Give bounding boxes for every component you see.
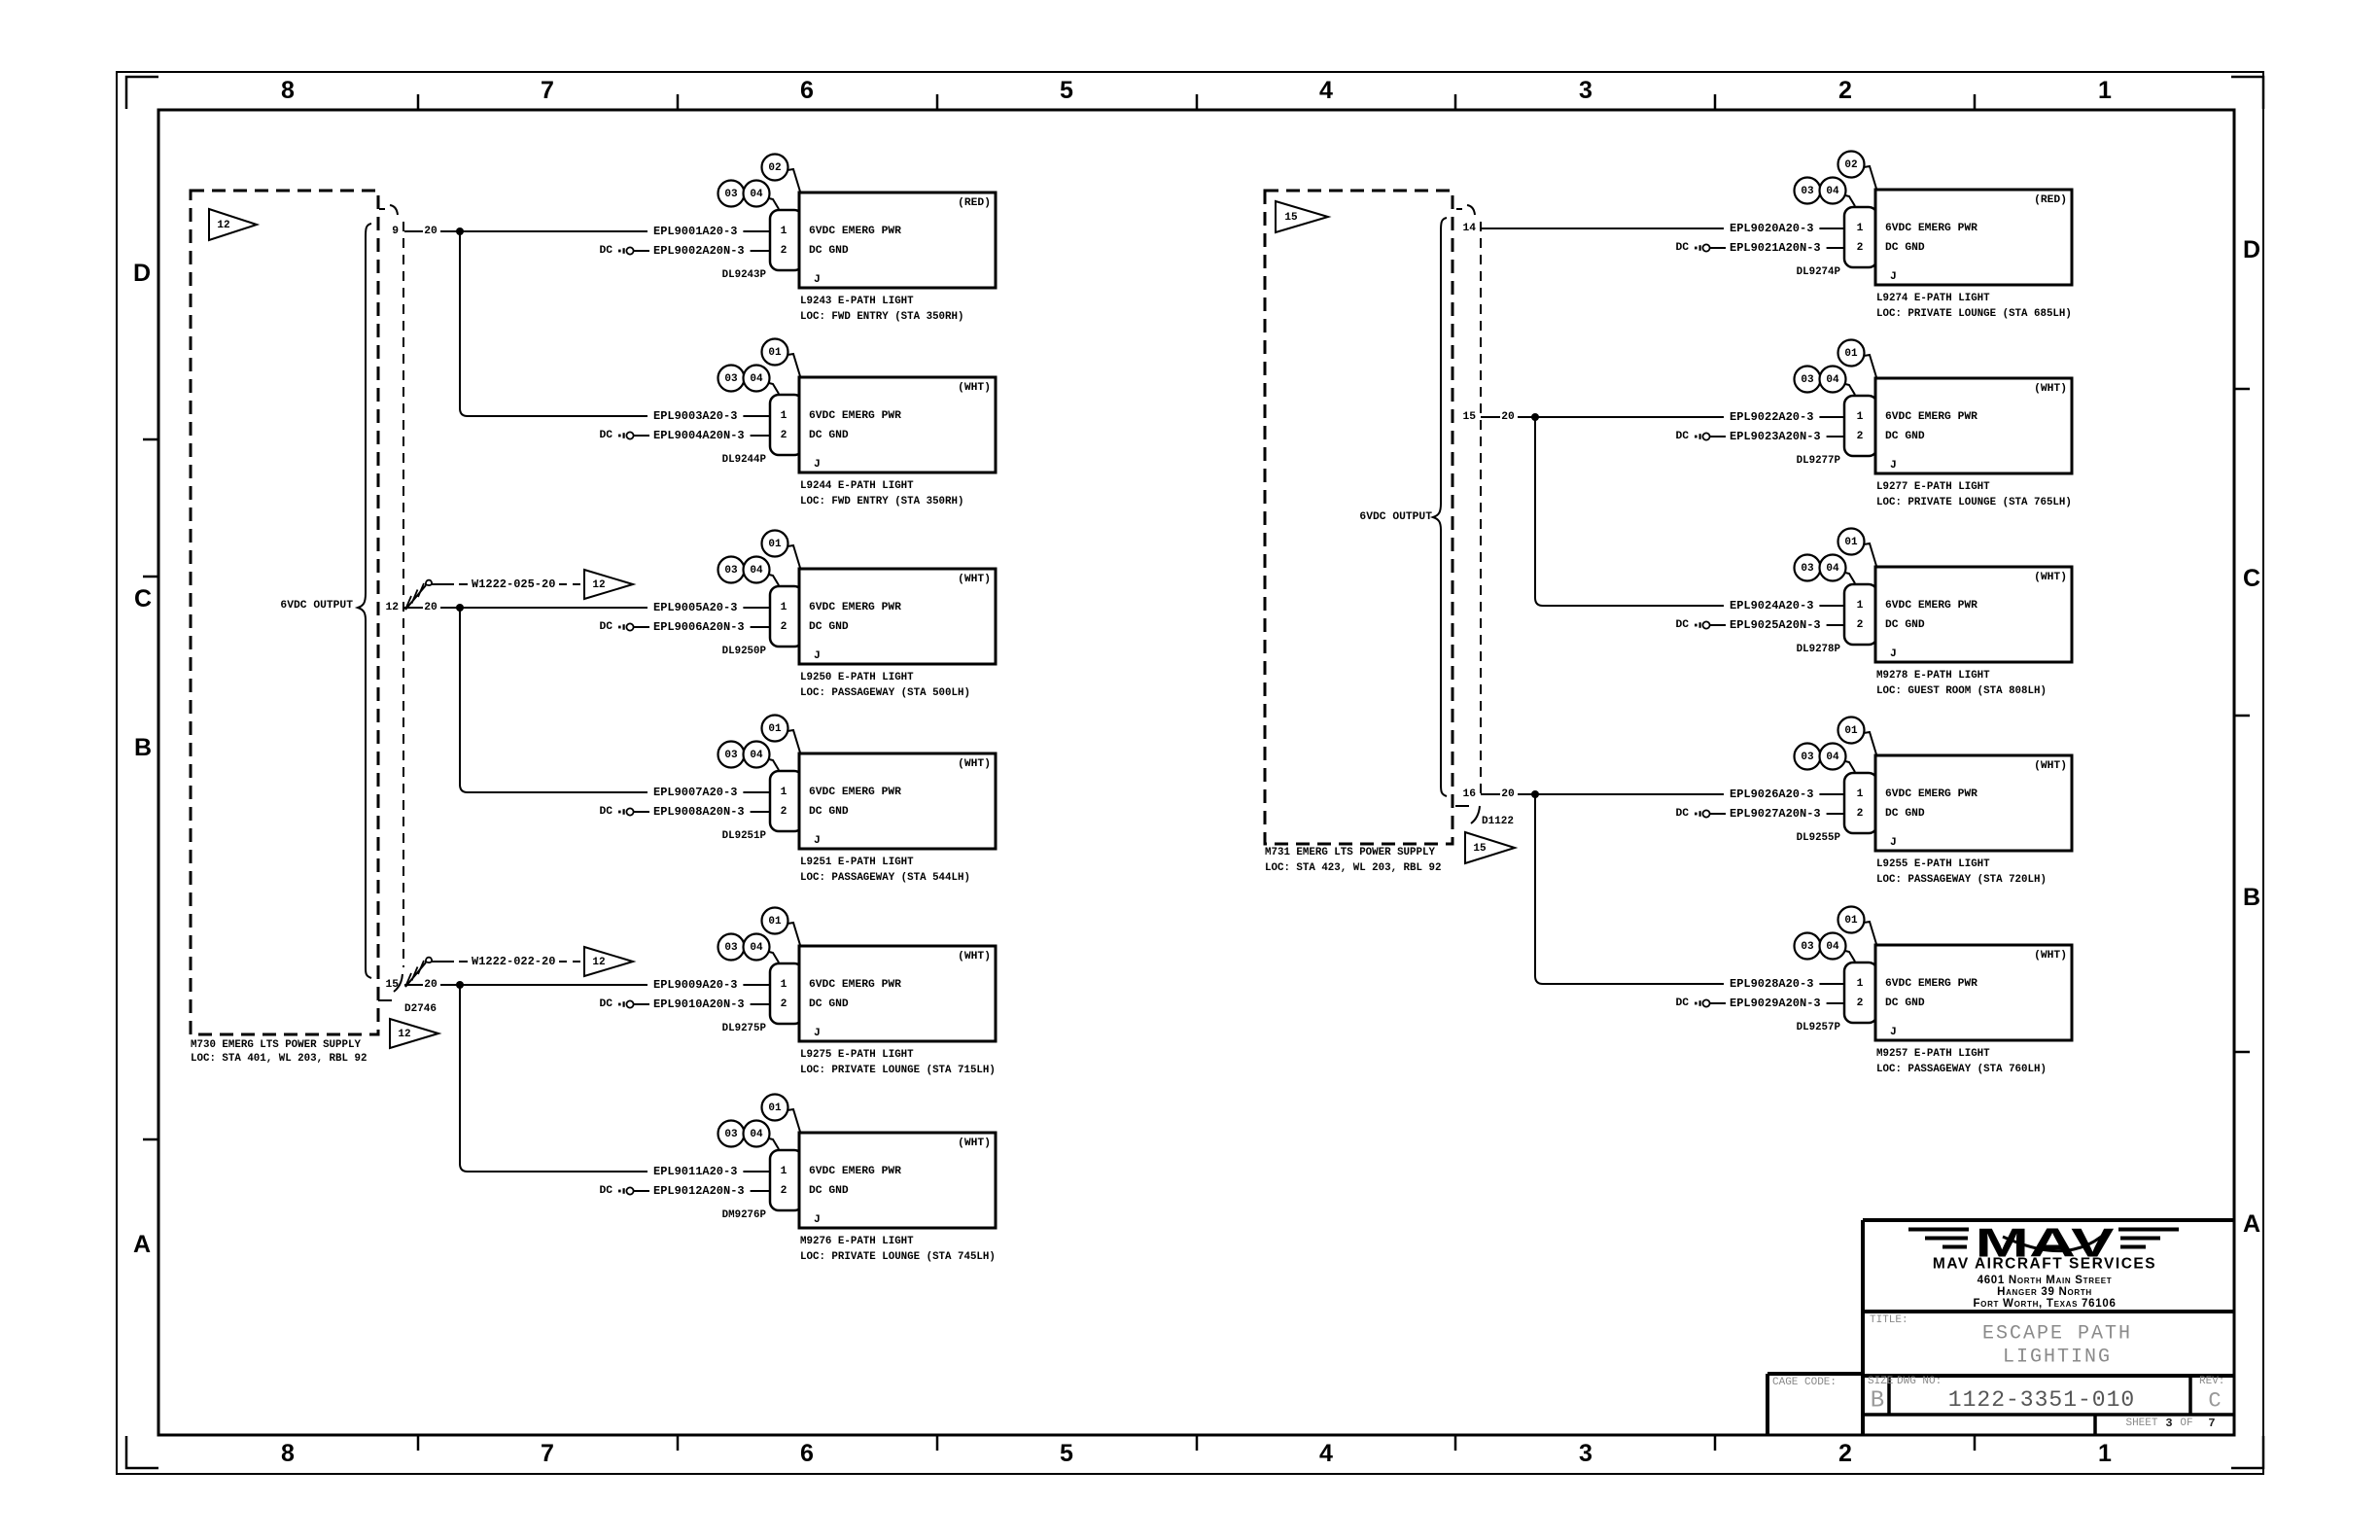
svg-text:15: 15 [1462, 411, 1476, 423]
wire pin 9 to EPL9001 [404, 226, 647, 237]
svg-text:LOC: PRIVATE LOUNGE (STA 685LH: LOC: PRIVATE LOUNGE (STA 685LH) [1876, 308, 2072, 320]
connector bracket of M731 [1455, 205, 1481, 823]
svg-text:L9243 E-PATH LIGHT: L9243 E-PATH LIGHT [800, 296, 914, 307]
svg-text:03: 03 [1801, 752, 1814, 763]
svg-text:16: 16 [1462, 788, 1476, 800]
svg-text:DC: DC [1675, 997, 1689, 1009]
pin 2 of DL9243P [781, 245, 787, 257]
svg-text:J: J [1890, 1027, 1897, 1038]
svg-text:1: 1 [781, 410, 787, 422]
ground symbol DC for EPL9006A20N-3 [599, 621, 649, 633]
svg-text:W1222-022-20: W1222-022-20 [472, 955, 555, 968]
label D1122 [1482, 816, 1514, 827]
svg-text:EPL9020A20-3: EPL9020A20-3 [1730, 222, 1813, 235]
svg-text:04: 04 [1826, 752, 1839, 763]
svg-text:1: 1 [781, 1166, 787, 1177]
pin 2 of DL9251P [781, 806, 787, 818]
svg-text:2: 2 [1857, 997, 1864, 1009]
pin 2 of DL9278P [1857, 619, 1864, 631]
svg-text:DL9243P: DL9243P [722, 269, 767, 281]
svg-text:LOC: STA 423, WL 203, RBL 92: LOC: STA 423, WL 203, RBL 92 [1265, 862, 1441, 874]
svg-text:EPL9023A20N-3: EPL9023A20N-3 [1730, 430, 1821, 443]
connector label DL9243P [722, 269, 767, 281]
svg-text:EPL9010A20N-3: EPL9010A20N-3 [653, 997, 745, 1011]
svg-text:DC GND: DC GND [1885, 431, 1925, 442]
ground symbol DC for EPL9025A20N-3 [1675, 619, 1726, 631]
svg-text:12: 12 [398, 1029, 410, 1040]
svg-text:8: 8 [281, 77, 295, 104]
connector DL9250P [770, 586, 803, 647]
svg-text:MAV AIRCRAFT SERVICES: MAV AIRCRAFT SERVICES [1933, 1256, 2156, 1273]
svg-text:EPL9026A20-3: EPL9026A20-3 [1730, 787, 1813, 801]
rev cell [2199, 1376, 2224, 1414]
svg-text:6: 6 [800, 77, 814, 104]
junction (pin 16, M731) [1531, 790, 1539, 798]
pin 2 of DL9274P [1857, 242, 1864, 254]
svg-text:B: B [1871, 1388, 1884, 1415]
svg-text:EPL9007A20-3: EPL9007A20-3 [653, 786, 737, 799]
svg-text:6VDC OUTPUT: 6VDC OUTPUT [1359, 511, 1432, 523]
svg-text:DL9250P: DL9250P [722, 646, 767, 657]
svg-text:04: 04 [750, 373, 763, 385]
wire pin 15 to EPL9009 [404, 979, 647, 991]
callout circle 04 [744, 742, 780, 771]
svg-text:01: 01 [1844, 915, 1858, 927]
svg-text:2: 2 [1857, 242, 1864, 254]
svg-text:(WHT): (WHT) [958, 382, 991, 394]
svg-text:J: J [1890, 648, 1897, 660]
svg-text:8: 8 [281, 1440, 295, 1467]
wire EPL9002A20N-3 [653, 244, 770, 258]
svg-text:EPL9004A20N-3: EPL9004A20N-3 [653, 429, 745, 442]
svg-text:20: 20 [424, 226, 437, 237]
pin 2 of DL9244P [781, 430, 787, 441]
svg-text:DC GND: DC GND [1885, 619, 1925, 631]
drawing title [1870, 1314, 2132, 1369]
svg-text:D: D [2243, 236, 2260, 263]
callout circle 01 [762, 716, 801, 753]
svg-text:L9275 E-PATH LIGHT: L9275 E-PATH LIGHT [800, 1049, 914, 1061]
wire EPL9026A20-3 [1730, 787, 1844, 801]
svg-text:LOC: PASSAGEWAY (STA 720LH): LOC: PASSAGEWAY (STA 720LH) [1876, 874, 2047, 886]
svg-text:A: A [2243, 1210, 2260, 1238]
callout circle 03 [1795, 744, 1821, 770]
ground symbol DC for EPL9021A20N-3 [1675, 242, 1726, 254]
svg-text:04: 04 [1826, 941, 1839, 953]
svg-text:6VDC EMERG PWR: 6VDC EMERG PWR [1885, 788, 1977, 800]
svg-text:3: 3 [1579, 1440, 1592, 1467]
connector label DM9276P [722, 1209, 767, 1221]
power supply M731 [1265, 191, 1452, 874]
ground symbol DC for EPL9012A20N-3 [599, 1185, 649, 1197]
label L9255 E-PATH LIGHT [1876, 858, 2047, 886]
svg-text:12: 12 [592, 957, 605, 968]
svg-text:D: D [133, 260, 151, 287]
flag 15 (bottom, M731) [1465, 832, 1515, 863]
ground symbol DC for EPL9023A20N-3 [1675, 431, 1726, 442]
svg-text:1: 1 [781, 787, 787, 798]
svg-text:14: 14 [1462, 223, 1476, 234]
svg-text:02: 02 [768, 162, 781, 174]
svg-text:M730 EMERG LTS POWER SUPPLY: M730 EMERG LTS POWER SUPPLY [191, 1039, 361, 1051]
connector label DL9255P [1797, 832, 1841, 844]
svg-text:04: 04 [750, 942, 763, 954]
callout circle 01 [762, 339, 801, 377]
svg-text:6: 6 [800, 1440, 814, 1467]
svg-text:12: 12 [592, 579, 605, 591]
svg-text:04: 04 [750, 565, 763, 577]
svg-text:1: 1 [2098, 1440, 2112, 1467]
svg-text:C: C [2208, 1389, 2221, 1414]
label L9274 E-PATH LIGHT [1876, 293, 2072, 320]
label L9250 E-PATH LIGHT [800, 672, 970, 699]
svg-text:01: 01 [768, 347, 782, 359]
pin 1 of DL9255P [1857, 788, 1864, 800]
wire EPL9003A20-3 [653, 409, 770, 423]
svg-text:6VDC OUTPUT: 6VDC OUTPUT [280, 600, 353, 612]
svg-text:(WHT): (WHT) [2034, 572, 2067, 583]
wire pin 14 to EPL9020 [1481, 227, 1724, 229]
svg-text:DL9251P: DL9251P [722, 830, 767, 842]
svg-text:7: 7 [541, 77, 554, 104]
svg-text:TITLE:: TITLE: [1870, 1314, 1908, 1326]
svg-text:03: 03 [724, 1129, 738, 1140]
svg-text:01: 01 [1844, 537, 1858, 548]
svg-text:C: C [134, 585, 152, 612]
branch wire to L9251 [460, 608, 647, 792]
svg-text:DL9257P: DL9257P [1797, 1022, 1841, 1033]
svg-text:EPL9003A20-3: EPL9003A20-3 [653, 409, 737, 423]
branch wire to M9276 [460, 985, 647, 1172]
svg-text:04: 04 [1826, 374, 1839, 386]
svg-text:LOC: PASSAGEWAY (STA 760LH): LOC: PASSAGEWAY (STA 760LH) [1876, 1064, 2047, 1075]
callout circle 02 [762, 155, 801, 192]
callout circle 04 [744, 557, 780, 586]
wire EPL9006A20N-3 [653, 620, 770, 634]
callout circle 01 [762, 1095, 801, 1133]
cable W1222-022-20 [405, 955, 580, 987]
svg-text:03: 03 [724, 750, 738, 761]
callout circle 03 [1795, 178, 1821, 204]
svg-text:DL9255P: DL9255P [1797, 832, 1841, 844]
callout circle 03 [718, 557, 745, 583]
svg-text:DC: DC [599, 245, 612, 257]
connector label DL9250P [722, 646, 767, 657]
svg-text:LOC: PASSAGEWAY (STA 544LH): LOC: PASSAGEWAY (STA 544LH) [800, 872, 970, 884]
wire EPL9028A20-3 [1730, 977, 1844, 991]
svg-text:L9274 E-PATH LIGHT: L9274 E-PATH LIGHT [1876, 293, 1990, 304]
svg-text:EPL9025A20N-3: EPL9025A20N-3 [1730, 618, 1821, 632]
power supply M730 [191, 191, 378, 1065]
svg-text:L9251 E-PATH LIGHT: L9251 E-PATH LIGHT [800, 857, 914, 868]
dwg no cell [1897, 1376, 2135, 1413]
svg-text:LOC: FWD ENTRY (STA 350RH): LOC: FWD ENTRY (STA 350RH) [800, 311, 963, 323]
wire pin 16 to EPL9026 [1481, 788, 1724, 800]
label M9278 E-PATH LIGHT [1876, 670, 2047, 697]
svg-text:2: 2 [781, 1185, 787, 1197]
label M9257 E-PATH LIGHT [1876, 1048, 2047, 1075]
svg-text:B: B [2243, 884, 2260, 911]
pin 2 of DL9277P [1857, 431, 1864, 442]
svg-text:12: 12 [217, 220, 229, 231]
svg-text:1: 1 [1857, 788, 1864, 800]
connector label DL9251P [722, 830, 767, 842]
wire EPL9022A20-3 [1730, 410, 1844, 424]
callout circle 04 [744, 934, 780, 963]
svg-text:B: B [134, 734, 152, 761]
svg-text:LOC: GUEST ROOM (STA 808LH): LOC: GUEST ROOM (STA 808LH) [1876, 685, 2047, 697]
pin 1 of DM9276P [781, 1166, 787, 1177]
svg-text:J: J [814, 274, 821, 286]
svg-text:2: 2 [1857, 619, 1864, 631]
wire EPL9029A20N-3 [1730, 997, 1844, 1010]
svg-text:(WHT): (WHT) [2034, 760, 2067, 772]
svg-text:EPL9009A20-3: EPL9009A20-3 [653, 978, 737, 992]
wire EPL9009A20-3 [653, 978, 770, 992]
callout circle 01 [1838, 907, 1877, 945]
connector DL9257P [1844, 962, 1877, 1023]
pin 1 of DL9243P [781, 226, 787, 237]
svg-text:M9278 E-PATH LIGHT: M9278 E-PATH LIGHT [1876, 670, 1990, 682]
pin 2 of DL9275P [781, 998, 787, 1010]
svg-text:J: J [814, 1214, 821, 1226]
svg-text:1: 1 [781, 226, 787, 237]
connector DL9278P [1844, 584, 1877, 645]
callout circle 04 [1820, 744, 1856, 773]
wire EPL9024A20-3 [1730, 599, 1844, 612]
light unit L9251 [799, 753, 996, 849]
cage code cell [1772, 1377, 1837, 1388]
flag 12 (bottom, M730) [390, 1019, 438, 1048]
connector DM9276P [770, 1150, 803, 1210]
ground symbol DC for EPL9010A20N-3 [599, 998, 649, 1010]
svg-text:DL9277P: DL9277P [1797, 455, 1841, 467]
svg-text:LOC: PRIVATE LOUNGE (STA 765LH: LOC: PRIVATE LOUNGE (STA 765LH) [1876, 497, 2072, 508]
svg-text:6VDC EMERG PWR: 6VDC EMERG PWR [1885, 223, 1977, 234]
svg-text:EPL9002A20N-3: EPL9002A20N-3 [653, 244, 745, 258]
light unit L9275 [799, 946, 996, 1041]
svg-text:1: 1 [1857, 600, 1864, 612]
svg-text:LOC: PRIVATE LOUNGE (STA 745LH: LOC: PRIVATE LOUNGE (STA 745LH) [800, 1251, 996, 1263]
flag 15 (top, M731) [1276, 201, 1328, 232]
svg-text:J: J [1890, 271, 1897, 283]
pin 1 of DL9250P [781, 602, 787, 613]
svg-text:2: 2 [1838, 77, 1852, 104]
svg-text:EPL9021A20N-3: EPL9021A20N-3 [1730, 241, 1821, 255]
callout circle 01 [762, 531, 801, 569]
pin 1 of DL9251P [781, 787, 787, 798]
svg-text:(WHT): (WHT) [2034, 383, 2067, 395]
svg-text:(RED): (RED) [2034, 194, 2067, 206]
light unit M9278 [1875, 567, 2072, 662]
callout circle 01 [762, 908, 801, 946]
svg-text:D2746: D2746 [404, 1003, 437, 1015]
svg-text:6VDC EMERG PWR: 6VDC EMERG PWR [1885, 600, 1977, 612]
connector DL9244P [770, 395, 803, 455]
svg-text:03: 03 [1801, 186, 1814, 197]
svg-text:M9276 E-PATH LIGHT: M9276 E-PATH LIGHT [800, 1236, 914, 1247]
callout circle 01 [1838, 529, 1877, 567]
svg-text:DL9278P: DL9278P [1797, 644, 1841, 655]
light unit L9274 [1875, 190, 2072, 285]
pin 14 (M731) [1462, 223, 1476, 234]
svg-text:1122-3351-010: 1122-3351-010 [1948, 1387, 2135, 1413]
connector DL9255P [1844, 773, 1877, 833]
branch wire to L9244 [460, 231, 647, 416]
svg-text:01: 01 [1844, 725, 1858, 737]
wire EPL9001A20-3 [653, 225, 770, 238]
connector bracket of M730 [378, 205, 403, 1000]
connector label DL9277P [1797, 455, 1841, 467]
svg-text:DC GND: DC GND [1885, 242, 1925, 254]
svg-text:2: 2 [1857, 431, 1864, 442]
svg-text:3: 3 [1579, 77, 1592, 104]
svg-text:15: 15 [1284, 212, 1298, 224]
svg-text:REV:: REV: [2199, 1376, 2224, 1387]
svg-text:03: 03 [1801, 941, 1814, 953]
light unit L9250 [799, 569, 996, 664]
svg-text:LIGHTING: LIGHTING [2003, 1347, 2112, 1369]
svg-text:7: 7 [2208, 1417, 2215, 1430]
svg-text:(WHT): (WHT) [958, 758, 991, 770]
wire EPL9020A20-3 [1730, 222, 1844, 235]
svg-text:M9257 E-PATH LIGHT: M9257 E-PATH LIGHT [1876, 1048, 1990, 1060]
pin 2 of DL9255P [1857, 808, 1864, 820]
callout circle 04 [1820, 555, 1856, 584]
callout circle 04 [744, 366, 780, 395]
svg-text:SIZE: SIZE [1868, 1376, 1894, 1387]
svg-text:DL9244P: DL9244P [722, 454, 767, 466]
pin 12 (M730) [385, 602, 399, 613]
pin 1 of DL9244P [781, 410, 787, 422]
callout circle 03 [718, 934, 745, 961]
svg-text:C: C [2243, 565, 2260, 592]
MAV logo [1908, 1220, 2179, 1311]
ground symbol DC for EPL9002A20N-3 [599, 245, 649, 257]
svg-text:LOC: PRIVATE LOUNGE (STA 715LH: LOC: PRIVATE LOUNGE (STA 715LH) [800, 1065, 996, 1076]
svg-text:20: 20 [424, 979, 437, 991]
callout circle 03 [718, 1121, 745, 1147]
light unit M9276 [799, 1133, 996, 1228]
svg-text:EPL9028A20-3: EPL9028A20-3 [1730, 977, 1813, 991]
label L9244 E-PATH LIGHT [800, 480, 963, 507]
svg-text:2: 2 [1838, 1440, 1852, 1467]
svg-text:5: 5 [1060, 1440, 1073, 1467]
connector DL9251P [770, 771, 803, 831]
svg-text:EPL9022A20-3: EPL9022A20-3 [1730, 410, 1813, 424]
node 6VDC OUTPUT (M731) [1359, 218, 1447, 796]
svg-text:6VDC EMERG PWR: 6VDC EMERG PWR [809, 410, 901, 422]
svg-text:6VDC EMERG PWR: 6VDC EMERG PWR [1885, 411, 1977, 423]
pin 1 of DL9278P [1857, 600, 1864, 612]
svg-text:DC GND: DC GND [809, 806, 849, 818]
svg-text:Fort Worth, Texas 76106: Fort Worth, Texas 76106 [1973, 1298, 2116, 1310]
callout circle 03 [1795, 933, 1821, 960]
pin 9 (M730) [392, 226, 399, 237]
connector label DL9274P [1797, 266, 1841, 278]
svg-text:7: 7 [541, 1440, 554, 1467]
connector label DL9278P [1797, 644, 1841, 655]
svg-text:EPL9029A20N-3: EPL9029A20N-3 [1730, 997, 1821, 1010]
wire EPL9027A20N-3 [1730, 807, 1844, 821]
connector DL9275P [770, 963, 803, 1024]
svg-text:M731 EMERG LTS POWER SUPPLY: M731 EMERG LTS POWER SUPPLY [1265, 847, 1435, 858]
svg-text:DWG NO:: DWG NO: [1897, 1376, 1942, 1387]
svg-text:J: J [814, 650, 821, 662]
svg-text:2: 2 [1857, 808, 1864, 820]
wire pin 15 to EPL9022 [1481, 411, 1724, 423]
wire EPL9010A20N-3 [653, 997, 770, 1011]
svg-text:DC GND: DC GND [809, 621, 849, 633]
svg-text:1: 1 [781, 602, 787, 613]
svg-text:04: 04 [1826, 563, 1839, 575]
svg-text:L9255 E-PATH LIGHT: L9255 E-PATH LIGHT [1876, 858, 1990, 870]
flag 12 (top, M730) [209, 209, 257, 240]
wire EPL9007A20-3 [653, 786, 770, 799]
svg-text:DM9276P: DM9276P [722, 1209, 767, 1221]
svg-text:03: 03 [1801, 563, 1814, 575]
svg-text:(WHT): (WHT) [958, 951, 991, 962]
junction (pin 15, M731) [1531, 413, 1539, 421]
svg-text:03: 03 [1801, 374, 1814, 386]
svg-text:4: 4 [1319, 1440, 1333, 1467]
wire EPL9012A20N-3 [653, 1184, 770, 1198]
svg-text:DC: DC [1675, 242, 1689, 254]
svg-text:03: 03 [724, 373, 738, 385]
svg-text:1: 1 [1857, 978, 1864, 990]
callout circle 01 [1838, 340, 1877, 378]
svg-text:DC: DC [1675, 808, 1689, 820]
svg-text:2: 2 [781, 621, 787, 633]
connector DL9274P [1844, 207, 1877, 267]
svg-text:2: 2 [781, 806, 787, 818]
label L9275 E-PATH LIGHT [800, 1049, 996, 1076]
callout circle 04 [1820, 933, 1856, 962]
title block [1767, 1220, 2234, 1435]
svg-text:01: 01 [768, 916, 782, 927]
cable W1222-025-20 [405, 577, 580, 610]
ground symbol DC for EPL9004A20N-3 [599, 430, 649, 441]
label L9277 E-PATH LIGHT [1876, 481, 2072, 508]
svg-text:DC: DC [599, 1185, 612, 1197]
callout circle 04 [1820, 367, 1856, 396]
junction (pin 15) [456, 981, 464, 989]
svg-text:EPL9012A20N-3: EPL9012A20N-3 [653, 1184, 745, 1198]
wire EPL9004A20N-3 [653, 429, 770, 442]
svg-text:LOC: FWD ENTRY (STA 350RH): LOC: FWD ENTRY (STA 350RH) [800, 496, 963, 507]
label M9276 E-PATH LIGHT [800, 1236, 996, 1263]
callout circle 01 [1838, 717, 1877, 755]
svg-text:EPL9008A20N-3: EPL9008A20N-3 [653, 805, 745, 819]
svg-text:4: 4 [1319, 77, 1333, 104]
wire EPL9025A20N-3 [1730, 618, 1844, 632]
svg-text:15: 15 [385, 979, 399, 991]
svg-text:ESCAPE PATH: ESCAPE PATH [1982, 1323, 2132, 1346]
svg-text:4601 North Main Street: 4601 North Main Street [1977, 1275, 2113, 1286]
wire pin 12 to EPL9005 [404, 602, 647, 613]
svg-text:03: 03 [724, 565, 738, 577]
connector label DL9244P [722, 454, 767, 466]
svg-text:2: 2 [781, 998, 787, 1010]
wire EPL9021A20N-3 [1730, 241, 1844, 255]
svg-text:12: 12 [385, 602, 399, 613]
svg-text:J: J [814, 459, 821, 471]
svg-text:(WHT): (WHT) [2034, 950, 2067, 962]
flag 12 (cable W1222-025-20) [584, 570, 633, 599]
branch wire to M9257 [1535, 794, 1724, 984]
wire EPL9005A20-3 [653, 601, 770, 614]
svg-text:04: 04 [750, 1129, 763, 1140]
